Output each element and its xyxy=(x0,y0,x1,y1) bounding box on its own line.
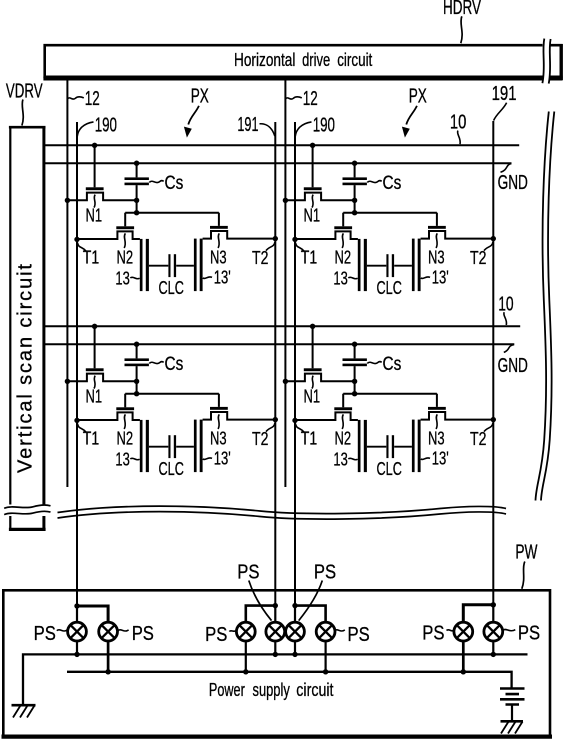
svg-text:PW: PW xyxy=(515,541,537,563)
svg-text:circuit: circuit xyxy=(296,680,333,700)
svg-text:PS: PS xyxy=(348,624,370,646)
svg-text:PS: PS xyxy=(518,622,540,644)
svg-text:circuit: circuit xyxy=(337,50,372,70)
svg-text:10: 10 xyxy=(498,294,513,316)
svg-text:Horizontal: Horizontal xyxy=(234,50,295,70)
svg-text:191: 191 xyxy=(237,114,258,136)
svg-text:GND: GND xyxy=(498,172,528,194)
svg-text:191: 191 xyxy=(492,83,517,105)
svg-text:HDRV: HDRV xyxy=(443,0,481,19)
svg-text:PS: PS xyxy=(314,562,336,584)
svg-text:PS: PS xyxy=(237,562,259,584)
svg-text:PS: PS xyxy=(205,624,227,646)
svg-text:Vertical scan circuit: Vertical scan circuit xyxy=(15,264,37,473)
svg-text:PS: PS xyxy=(34,623,56,645)
svg-text:GND: GND xyxy=(498,355,528,377)
svg-text:PS: PS xyxy=(132,623,154,645)
svg-text:supply: supply xyxy=(253,680,290,700)
svg-text:PS: PS xyxy=(422,622,444,644)
svg-text:Power: Power xyxy=(209,680,245,700)
svg-text:10: 10 xyxy=(450,112,467,134)
svg-text:VDRV: VDRV xyxy=(6,80,43,102)
svg-text:drive: drive xyxy=(302,50,330,70)
